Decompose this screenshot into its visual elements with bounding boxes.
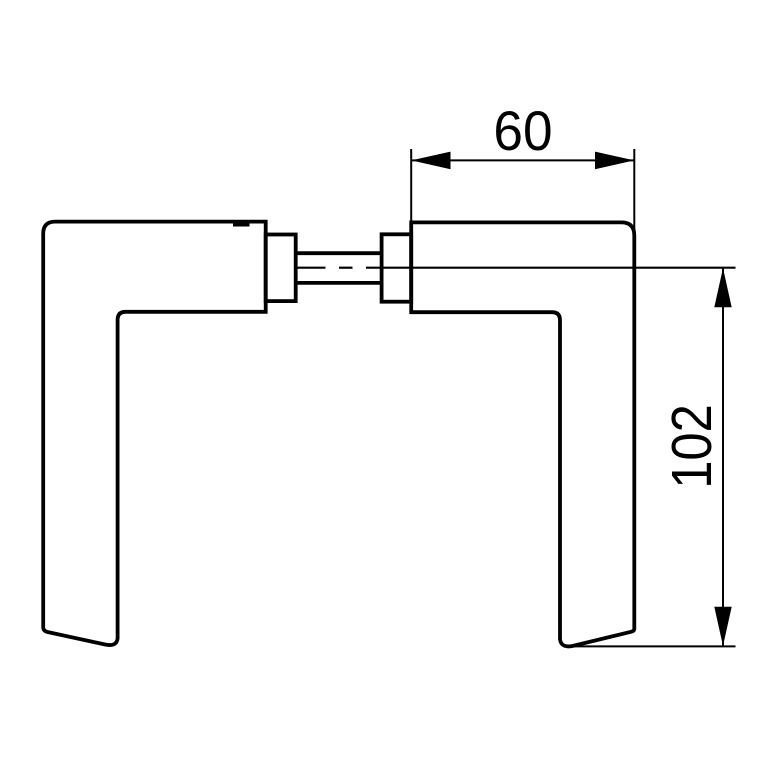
dim 60: left arrowhead bbox=[411, 152, 450, 170]
dim 102: top arrowhead bbox=[714, 268, 731, 307]
svg-text:102: 102 bbox=[660, 404, 723, 489]
dim 60: left extension line bbox=[410, 149, 412, 221]
dim 60: dimension line bbox=[411, 159, 634, 161]
spindle centerline (dashed then solid, also 102 top extension) bbox=[297, 267, 736, 269]
svg-text:60: 60 bbox=[493, 100, 552, 163]
spindle bottom line bbox=[296, 281, 382, 285]
dim 102: bottom extension line bbox=[570, 645, 736, 647]
dim 60: right arrowhead bbox=[595, 152, 634, 170]
right neck collar bbox=[382, 234, 412, 301]
spindle top line bbox=[296, 251, 382, 255]
right handle bbox=[411, 222, 634, 646]
left neck collar bbox=[266, 235, 296, 302]
dim 102: dimension line bbox=[722, 268, 724, 647]
dim 102: bottom arrowhead bbox=[714, 607, 731, 646]
dim 60: right extension line bbox=[633, 149, 635, 237]
artifact tick on left handle top edge bbox=[233, 223, 250, 226]
left handle bbox=[43, 222, 266, 645]
